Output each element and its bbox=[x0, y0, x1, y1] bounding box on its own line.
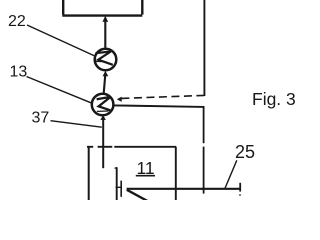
outlet pipe 25 bbox=[127, 183, 241, 192]
valve U13 circle bbox=[92, 94, 114, 116]
leader line 25 bbox=[225, 160, 237, 189]
apparatus box (top, cut off) bbox=[62, 0, 142, 16]
svg-text:22: 22 bbox=[8, 13, 26, 30]
wire arrow into valve U13 from below bbox=[100, 115, 106, 168]
wire arrow into top box bbox=[103, 16, 109, 48]
speck at pipe end bbox=[239, 194, 241, 196]
chute diagonal bbox=[127, 190, 148, 201]
tank 11 walls bbox=[87, 147, 176, 200]
tank internal tube bbox=[115, 167, 122, 200]
wire arrow into pump U22 from below bbox=[103, 71, 109, 94]
valve U13 zigzag glyph bbox=[97, 97, 111, 112]
leader line 22 bbox=[27, 25, 94, 56]
leader line 13 bbox=[27, 77, 92, 103]
return wire from valve U13 to lower right bbox=[114, 105, 204, 193]
control wire vertical (top right) bbox=[203, 0, 205, 96]
svg-text:Fig. 3: Fig. 3 bbox=[252, 89, 296, 109]
dashed control line into valve U13 bbox=[117, 95, 205, 102]
svg-text:25: 25 bbox=[235, 142, 255, 162]
pump U22 circle bbox=[95, 49, 117, 71]
leader line 37 bbox=[51, 121, 102, 128]
svg-text:37: 37 bbox=[32, 110, 50, 127]
pump U22 zigzag glyph bbox=[96, 52, 113, 65]
svg-text:13: 13 bbox=[10, 63, 28, 80]
